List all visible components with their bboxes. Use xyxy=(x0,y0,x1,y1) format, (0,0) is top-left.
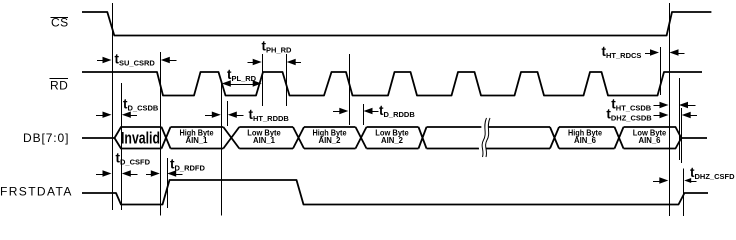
node tDHZ_CSDB right arrow xyxy=(682,112,697,118)
svg-text:AIN_1: AIN_1 xyxy=(253,136,276,145)
node CS-rise reference line K xyxy=(669,3,671,216)
node DB X-crossing 1 xyxy=(162,127,171,149)
node DB-change tick F xyxy=(227,101,229,126)
node tDHZ_CSFD right arrow xyxy=(684,178,696,183)
node DB X-crossing 3 xyxy=(293,127,304,149)
node time-break squiggle xyxy=(482,118,490,157)
node RD-rise-2 reference line P1 xyxy=(262,54,264,106)
wire DB bus top edge chain xyxy=(115,127,682,138)
label bus cell Low Byte AIN_1 xyxy=(247,128,281,144)
svg-text:AIN_2: AIN_2 xyxy=(319,136,342,145)
svg-text:DB[7:0]: DB[7:0] xyxy=(23,131,69,145)
label bus cell High Byte AIN_1 xyxy=(180,128,214,144)
node tDHZ_CSFD left arrow xyxy=(653,177,668,183)
node tD_CSDB left arrow xyxy=(96,112,112,118)
node tHT_CSDB left arrow xyxy=(654,102,669,108)
node tD_CSFD right arrow xyxy=(122,170,138,176)
node RD-fall-1 reference line C xyxy=(160,52,162,216)
node FRSTDATA-high tick D xyxy=(167,158,169,208)
wire RD waveform xyxy=(82,72,702,96)
node RD-fall-3 reference line P2 xyxy=(286,54,288,106)
node RD-final-rise reference line J xyxy=(660,47,662,95)
svg-text:FRSTDATA: FRSTDATA xyxy=(0,185,73,199)
node tSU_CSRD left arrow xyxy=(97,57,112,63)
svg-text:AIN_1: AIN_1 xyxy=(186,136,209,145)
node tPL_RD span arrow xyxy=(222,80,262,86)
node tSU_CSRD right arrow xyxy=(161,57,177,63)
node RD-fall-2 reference line E xyxy=(221,83,223,216)
svg-text:Invalid: Invalid xyxy=(121,129,160,148)
node DB-hold tick L1 xyxy=(679,78,681,160)
node tHT_RDDB right arrow xyxy=(228,112,244,118)
node tPH_RD right arrow xyxy=(287,59,301,65)
node DB X-crossing 7 xyxy=(615,127,624,149)
node DB/FRSTDATA driven tick B xyxy=(121,83,123,210)
label bus cell High Byte AIN_2 xyxy=(313,128,347,144)
node tHT_RDDB left arrow xyxy=(205,112,221,118)
svg-text:RD: RD xyxy=(50,79,68,93)
label bus cell Low Byte AIN_2 xyxy=(375,128,409,144)
node DB-valid tick H xyxy=(363,104,365,125)
node tD_RDFD left arrow xyxy=(146,170,160,176)
label CS xyxy=(51,16,69,30)
node tHT_RDCS right arrow xyxy=(670,49,685,55)
wire FRSTDATA waveform xyxy=(82,180,708,205)
wire DB bus lead-in xyxy=(82,137,115,139)
node DB-highZ tick L2 xyxy=(681,108,683,163)
node CS-fall reference line A xyxy=(112,3,114,210)
node tD_CSDB right arrow xyxy=(122,112,137,118)
svg-text:AIN_6: AIN_6 xyxy=(574,136,597,145)
node DB X-crossing 2 xyxy=(223,127,239,149)
node tPH_RD left arrow xyxy=(248,59,262,65)
wire DB bus tail xyxy=(681,137,707,139)
node tD_CSFD left arrow xyxy=(96,170,112,176)
svg-text:AIN_6: AIN_6 xyxy=(639,136,662,145)
node tDHZ_CSDB left arrow xyxy=(654,112,669,118)
wire DB bus bottom edge chain xyxy=(115,138,682,149)
node tHT_RDCS left arrow xyxy=(645,49,659,55)
label RD xyxy=(50,79,69,93)
node DB X-crossing 4 xyxy=(356,127,367,149)
label bus cell High Byte AIN_6 xyxy=(568,128,602,144)
node DB X-crossing 6 xyxy=(550,127,559,149)
node RD-fall-4 reference line G xyxy=(349,54,351,125)
node DB X-crossing 5 xyxy=(419,127,427,149)
node tD_RDDB left arrow xyxy=(333,108,348,114)
svg-text:AIN_2: AIN_2 xyxy=(381,136,404,145)
node tHT_CSDB right arrow xyxy=(679,102,696,108)
node FRSTDATA-highZ tick M xyxy=(683,169,685,217)
node tD_RDDB right arrow xyxy=(364,108,379,114)
wire CS waveform xyxy=(82,12,711,36)
label bus cell Low Byte AIN_6 xyxy=(633,128,667,144)
node tD_RDFD right arrow xyxy=(167,170,182,176)
